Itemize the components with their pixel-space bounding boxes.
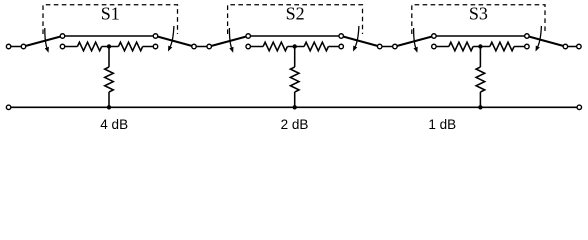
svg-text:4 dB: 4 dB xyxy=(100,117,128,132)
svg-text:S1: S1 xyxy=(101,4,120,24)
svg-text:S3: S3 xyxy=(469,4,488,24)
svg-text:S2: S2 xyxy=(286,4,305,24)
svg-text:2 dB: 2 dB xyxy=(281,117,309,132)
svg-text:1 dB: 1 dB xyxy=(428,117,456,132)
